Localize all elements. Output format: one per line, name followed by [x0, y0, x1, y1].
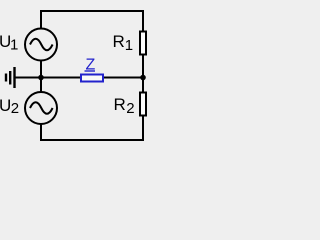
wire middle right (104,77.5)-(143,77.5)	[103, 77, 143, 79]
svg-text:R: R	[113, 32, 125, 51]
svg-text:2: 2	[126, 100, 134, 117]
wire left upper (41,11)-(41,28)	[40, 10, 42, 29]
wire bottom (41,140)-(143,140)	[40, 139, 144, 141]
impedance Z	[81, 75, 103, 82]
svg-text:1: 1	[10, 37, 18, 54]
svg-text:2: 2	[11, 100, 19, 117]
label Z	[85, 57, 96, 74]
label U1	[0, 32, 18, 54]
wire left lower (41,124.5)-(41,140)	[40, 124, 42, 141]
voltage source U1	[25, 29, 57, 61]
ground	[6, 67, 15, 88]
node junction left	[38, 75, 44, 81]
wire top (41,11)-(143,11)	[40, 10, 144, 12]
resistor R1	[140, 32, 146, 55]
node junction right	[140, 75, 146, 81]
wire right upper (143,11)-(143,30.5)	[142, 10, 144, 31]
label R1	[113, 32, 134, 54]
voltage source U2	[25, 92, 57, 124]
svg-text:R: R	[114, 95, 126, 114]
label U2	[0, 96, 19, 117]
wire ground lead (15,77.5)-(41,77.5)	[15, 77, 41, 79]
wire middle left (41,77.5)-(80,77.5)	[41, 77, 81, 79]
wire right lower (143,116.5)-(143,140)	[142, 116, 144, 141]
svg-text:1: 1	[125, 37, 133, 54]
svg-text:U: U	[0, 96, 11, 115]
wire left middle (41,61)-(41,91.5)	[40, 60, 42, 92]
label R2	[114, 95, 135, 117]
resistor R2	[140, 93, 146, 116]
wire right middle (143,55.5)-(143,91.5)	[142, 55, 144, 92]
